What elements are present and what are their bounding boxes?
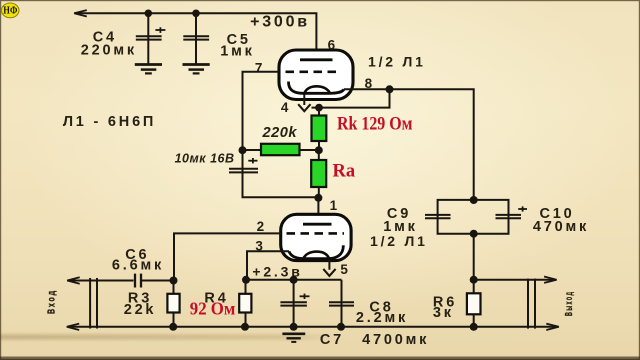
wire: +300V top bus with left arrow (74, 10, 316, 60)
node: pin8 junction (386, 85, 394, 93)
cathode (288, 82, 344, 94)
node: output junction (470, 276, 478, 284)
anode plate bar (303, 223, 332, 226)
svg-text:6.6мк: 6.6мк (112, 258, 164, 274)
node: C7 top (290, 276, 298, 284)
svg-text:220мк: 220мк (81, 43, 137, 59)
svg-text:+300в: +300в (250, 13, 310, 30)
cathode (289, 245, 343, 258)
node: pin7/220k/10мк junction (239, 146, 247, 154)
node: C6/R3/grid junction (170, 277, 178, 285)
input connector (90, 278, 97, 329)
svg-text:5: 5 (340, 262, 350, 277)
resistor R4 92 Ом (239, 280, 251, 327)
node: R4 bottom (241, 323, 249, 331)
svg-text:470мк: 470мк (533, 219, 589, 235)
svg-text:4700мк: 4700мк (362, 332, 429, 348)
wire: lower cathode pin3 to +2.3в bus (247, 251, 289, 280)
wire: lower grid pin2 to C6/R3 node (174, 233, 281, 280)
capacitor C5 1мк (to ground) (183, 13, 209, 64)
svg-text:1/2 Л1: 1/2 Л1 (368, 54, 426, 70)
svg-text:2.2мк: 2.2мк (356, 310, 408, 326)
resistor Rk (green) (312, 108, 327, 150)
svg-text:1мк: 1мк (383, 219, 417, 235)
svg-text:3к: 3к (433, 305, 454, 321)
grid (dashed) (287, 232, 345, 235)
node: R6 bottom (470, 323, 478, 331)
anode plate bar (300, 58, 333, 61)
node: C9/C10 block bottom (470, 230, 478, 238)
ground under C5 (183, 65, 210, 74)
wire: output junction to right arrow (474, 277, 557, 283)
envelope (279, 50, 353, 100)
svg-text:220k: 220k (262, 124, 298, 141)
capacitor C10 470мк (parallel block right, electrolytic) (474, 200, 527, 234)
svg-text:10мк 16В: 10мк 16В (175, 151, 235, 165)
resistor R3 22k (167, 281, 179, 327)
svg-text:2: 2 (257, 219, 267, 234)
svg-text:НФ: НФ (3, 6, 17, 17)
wire: block bottom to output node (473, 234, 475, 280)
svg-text:92 Ом: 92 Ом (190, 298, 236, 318)
ground under C7 (282, 334, 305, 342)
tube U1a: triode 1/2 Л1 (upper) (279, 50, 353, 100)
capacitor C6 6.6мк (135, 274, 141, 288)
resistor R6 3к (467, 280, 481, 327)
node: Rk top junction (315, 104, 323, 112)
svg-text:Ra: Ra (333, 162, 356, 182)
node: R4 top (242, 276, 250, 284)
capacitor C9 1мк (parallel block left) (425, 200, 474, 234)
svg-text:6: 6 (328, 38, 338, 53)
wire: cathode pin4 lead with arrow (298, 95, 310, 111)
output connector (528, 279, 535, 329)
envelope (281, 214, 351, 260)
resistor 220k (green, horizontal) (243, 144, 319, 155)
node: C7 bottom (290, 323, 298, 331)
svg-text:1мк: 1мк (220, 44, 254, 60)
svg-text:7: 7 (255, 61, 265, 76)
tube U1b: triode 1/2 Л1 (lower) (281, 214, 351, 260)
capacitor C8 2.2мк (329, 280, 354, 327)
svg-text:4: 4 (281, 100, 291, 115)
grid (dashed) (286, 71, 342, 74)
paper crease shadow bottom-left (0, 335, 336, 340)
svg-text:Вход: Вход (46, 289, 58, 314)
wire: +2.3в cathode bus (246, 279, 342, 281)
svg-text:1/2 Л1: 1/2 Л1 (370, 233, 428, 249)
resistor Ra (green) (311, 150, 326, 198)
node: Rk/Ra junction (315, 146, 323, 154)
ground under C4 (135, 65, 162, 74)
wire: pin8 lead (344, 88, 390, 90)
wire: to lower tube anode (317, 198, 319, 224)
logo НФ (1, 3, 19, 18)
wire: cathode node to Rk top and pin8 riser (312, 89, 390, 107)
node: Ra bottom / lower anode junction (314, 194, 322, 202)
wire: grid pin7 to 220k/10мк node (243, 72, 280, 150)
svg-text:22k: 22k (124, 302, 157, 318)
node: C8 bottom (337, 323, 345, 331)
svg-text:1: 1 (330, 198, 340, 213)
node: C5 tap on +300V bus (192, 10, 200, 18)
wire: pin8 junction to C9/C10 block (390, 89, 474, 200)
svg-text:Л1 - 6Н6П: Л1 - 6Н6П (63, 114, 156, 130)
node: C9/C10 block top (470, 196, 478, 204)
wire: ground bus (bottom) with arrows both ends (67, 324, 559, 330)
node: C4 tap on +300V bus (145, 10, 153, 18)
svg-text:C7: C7 (320, 332, 344, 348)
svg-text:Rk 129 Ом: Rk 129 Ом (337, 114, 413, 134)
node: R3 bottom (169, 323, 177, 331)
wire: input grid bus with left arrow (67, 277, 173, 283)
wire: 10мк bottom to Ra bottom node (243, 174, 319, 197)
wire: lower cathode pin5 lead with arrow to +2.3в bus (323, 260, 335, 276)
capacitor C7 4700мк (electrolytic) (280, 280, 309, 327)
capacitor C4 220мк (electrolytic to ground) (136, 13, 166, 64)
svg-text:Выход: Выход (563, 291, 575, 317)
capacitor 10мк 16В (electrolytic) (229, 150, 258, 196)
